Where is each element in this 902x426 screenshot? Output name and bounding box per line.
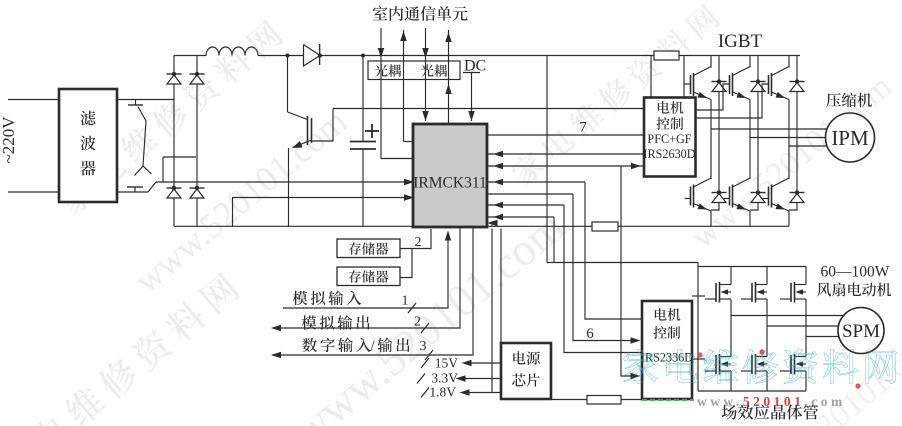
wire analog output line [273,229,461,329]
wire FET left return [697,267,699,392]
svg-text:~220V: ~220V [0,116,18,164]
wire filter top output [117,99,174,101]
wire AC input bottom [8,191,59,193]
motor driver box U7 电机控制 IRS2336D [642,301,692,399]
diode D3 bridge bottom-left [167,187,182,189]
wire bus 7 to gate driver [487,134,644,136]
wire gate/drive rail [333,108,644,110]
wire U1-driver line d bus 6 [487,193,573,195]
wire driver to gate leg3 [696,84,769,118]
wire U1-driver line f [487,216,554,218]
wire DC+ drop to FET bus [546,56,548,263]
wire phase 2 to compressor [750,137,842,139]
node analog input label 模拟输入 [293,291,362,306]
wire fan phase 1 [731,315,852,317]
watermark colored site name [624,349,897,384]
svg-text:60—100W: 60—100W [821,264,890,281]
wire 15V supply line [465,362,501,364]
transistor Q4 IGBT top leg3 [788,56,790,68]
motor M2 fan SPM [838,308,884,354]
inductor L1 PFC choke [206,47,258,56]
wire bridge left leg [173,56,175,75]
wire driver to FET gates bottom [692,358,705,360]
wire phase 3 to compressor [789,145,842,147]
diode D6 freewheel top leg1 [718,56,720,82]
node compressor label 压缩机 [826,93,872,107]
wire rail to driver top a [650,56,652,98]
motor control box U8 电机控制 PFC+GF IRS2630D [644,98,696,177]
op-amp U1 IRMCK311 controller [413,124,487,227]
diode D4 bridge bottom-right [190,187,205,189]
transistor Q6 IGBT bottom leg2 [749,138,751,179]
motor M1 compressor IPM [826,113,875,162]
node digital io label 数字输入/输出 [302,338,371,353]
transistor Q2 IGBT top leg1 [710,56,712,68]
wire memory bus to U1 [400,229,431,249]
wire optocoupler line 3 [425,28,427,121]
svg-text:1: 1 [402,294,409,309]
transistor Q5 IGBT bottom leg1 [710,129,712,179]
wire FET section top bus [547,263,806,267]
wire filter bottom output [117,191,148,193]
wire analog input line [283,232,448,308]
wire 1.8V supply line [463,392,501,394]
svg-text:IRS2630D: IRS2630D [643,147,695,161]
svg-text:PFC+GF: PFC+GF [647,132,691,146]
resistor R3 gate supply [587,396,621,405]
capacitor C1 DC bus electrolytic [362,56,364,142]
svg-text:15V: 15V [435,356,459,371]
diode D1 bridge top-left [167,73,182,75]
watermark green underline [642,399,694,401]
filter box U-FLT 滤波器 [59,89,117,202]
svg-text:7: 7 [579,120,587,136]
wire step to sense line [148,182,156,192]
wire driver to gate leg2 [696,84,730,110]
diode D7 freewheel top leg2 [757,56,759,82]
svg-text:6: 6 [586,326,594,342]
wire fan phase 3 [806,336,852,338]
memory box U5 存储器 [337,267,400,286]
wire gate stub bottom leg3 [763,198,769,200]
wire AC2 jog to bridge [163,156,196,158]
wire power chip to driver [551,399,587,401]
diode D8 freewheel top leg3 [796,56,798,82]
wire U1-driver line e [487,204,564,206]
node indoor unit label 室内通信单元 [373,6,468,21]
transistor Q7 IGBT bottom leg3 [788,146,790,179]
wire U1-driver line c [487,181,585,183]
wire AC input top [8,99,59,101]
wire phase 1 to compressor [711,128,842,130]
wire optocoupler line 4 [448,30,450,124]
svg-text:3.3V: 3.3V [431,371,458,386]
wire U1-driver line b bidirectional [487,165,644,167]
transistor Q11 MOSFET bottom leg1 [705,370,716,372]
wire feed to V rails [491,229,493,393]
wire Q1 gate to rail [312,109,334,142]
transistor Q12 MOSFET bottom leg2 [741,370,752,372]
wire optocoupler line 2 [403,30,405,142]
diode D5 boost diode [304,45,321,67]
watermark diagonal bottom right [734,320,902,426]
diode D11 freewheel bottom leg3 [796,146,798,193]
transistor Q9 MOSFET top leg2 [766,267,768,285]
node C1 polarity + [365,130,379,132]
diode D2 bridge top-right [190,73,205,75]
wire branch down to IRS2336D [621,166,635,376]
node fan motor label 风扇电动机 [817,282,891,296]
node FET section label 场效应晶体管 [722,404,819,419]
svg-text:www.520101.com: www.520101.com [697,394,846,409]
transistor Q1 PFC IGBT [287,56,289,113]
transistor Q13 MOSFET bottom leg3 [780,370,791,372]
transistor Q8 MOSFET top leg1 [730,267,732,285]
wire rail to power chip [500,229,502,344]
wire DC+ top rail [174,55,206,57]
wire FET bottom bus [698,390,806,392]
memory box U4 存储器 [337,239,400,258]
relay K1 contact [128,104,143,106]
wire return rail into U1 [489,223,492,226]
svg-text:SPM: SPM [842,321,880,342]
wire 3.3V supply line [459,378,501,380]
wire gate stub bottom leg1 [685,198,691,200]
resistor R2 shunt [592,222,618,231]
svg-text:/: / [370,338,375,355]
wire DC- return rail [174,225,592,227]
svg-text:2: 2 [414,315,421,330]
svg-text:IRMCK311: IRMCK311 [413,175,487,192]
wire DC- sense line to U1 [156,181,408,183]
transistor Q3 IGBT top leg2 [749,56,751,68]
svg-text:1.8V: 1.8V [429,385,456,400]
svg-text:IPM: IPM [831,126,869,150]
wire DC- return tap to U1 [233,198,409,227]
resistor R1 rail resistor [654,51,679,60]
wire U1-driver line a [487,153,644,155]
wire rail to driver top b [683,56,685,98]
wire bridge right leg [196,56,198,75]
wire driver to FET gates top [692,295,705,297]
wire DC feed into U1 [471,73,473,122]
wire gate stub top leg1 [684,83,691,85]
wire return rail to IGBT emitters [618,225,789,227]
diode D9 freewheel bottom leg1 [718,129,720,193]
optocoupler box U2/U3 光耦 [368,61,460,80]
node analog output label 模拟输出 [302,315,370,330]
diode D10 freewheel bottom leg2 [757,138,759,193]
power chip box U6 电源芯片 [501,343,551,399]
svg-text:2: 2 [415,235,422,250]
svg-text:3: 3 [420,339,427,354]
svg-text:IGBT: IGBT [718,31,763,52]
wire optocoupler line 1 [380,28,382,159]
wire gate stub bottom leg2 [724,198,730,200]
transistor Q10 MOSFET top leg3 [805,267,807,285]
wire digital io line [273,229,474,356]
wire fan phase 2 [767,325,852,327]
